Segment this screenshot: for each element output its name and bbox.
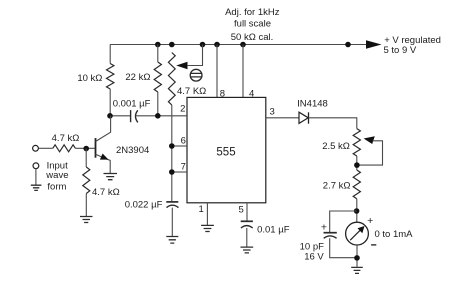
svg-text:4.7 kΩ: 4.7 kΩ: [52, 133, 80, 144]
diode D1 IN4148: [299, 112, 308, 123]
capacitor 0.01 uF: [241, 220, 253, 222]
capacitor 10 pF electrolytic: [324, 232, 337, 234]
wire base to 4.7k pulldown: [85, 149, 87, 168]
wire pin 5 drop: [246, 203, 248, 221]
wire cap bottom to meter bottom: [330, 238, 357, 257]
svg-text:5 to 9 V: 5 to 9 V: [384, 45, 417, 56]
wire pin 3 output: [266, 117, 299, 119]
wire pin 2 line: [110, 115, 187, 117]
wire diode to 2.5k: [309, 118, 357, 129]
2.5k wiper arrow: [364, 136, 375, 144]
wire 2.5k bottom to node: [356, 156, 358, 170]
node pin 6: [169, 143, 175, 149]
svg-text:3: 3: [270, 107, 275, 118]
wire 4.7k to base: [75, 147, 94, 149]
svg-text:0.01 µF: 0.01 µF: [257, 224, 290, 235]
resistor R 4.7 kOhm pulldown: [83, 167, 90, 194]
ground pin 1: [201, 225, 214, 231]
wire pin 1 to ground: [206, 203, 208, 225]
potentiometer 2.5 kOhm: [353, 129, 360, 156]
wire 10k branch top: [109, 45, 111, 64]
svg-text:form: form: [47, 181, 66, 192]
wire 0.01 to ground: [246, 228, 248, 247]
transistor emitter arrow: [100, 154, 109, 160]
wire pins 2-6-7 vertical tie: [171, 116, 173, 202]
svg-text:full scale: full scale: [234, 19, 271, 30]
svg-text:2.5 kΩ: 2.5 kΩ: [322, 141, 350, 152]
ground meter: [351, 267, 363, 273]
ground source: [31, 185, 42, 190]
+V supply arrow: [366, 40, 382, 49]
ground under 0.01: [241, 247, 254, 253]
svg-text:10 kΩ: 10 kΩ: [77, 73, 102, 84]
ground pulldown: [80, 217, 93, 223]
input waveform source circle: [33, 163, 39, 169]
wire meter bottom stub: [356, 245, 358, 267]
node 2.5k/2.7k: [354, 162, 360, 168]
svg-text:16 V: 16 V: [304, 252, 324, 263]
wire pin 4 drop: [242, 45, 244, 98]
wire node to cap branch: [330, 211, 357, 232]
wire pot wiper to rail: [187, 45, 203, 66]
wire 2.7k to meter node: [356, 199, 358, 222]
wire 4.7k pulldown to ground: [85, 194, 87, 217]
wire pin 7 stub: [172, 171, 187, 173]
svg-text:2N3904: 2N3904: [116, 145, 149, 156]
wire 22k branch top: [157, 45, 159, 63]
ground under 0.022: [166, 237, 178, 244]
node pot wiper tie: [200, 42, 206, 48]
node +V tap: [345, 42, 351, 48]
svg-text:1: 1: [199, 204, 204, 215]
svg-text:0.022 µF: 0.022 µF: [125, 199, 163, 210]
node collector / pin2 left: [107, 113, 113, 119]
node 22k bottom: [155, 113, 161, 119]
node base: [83, 146, 89, 152]
svg-text:wave: wave: [45, 170, 68, 181]
transistor emitter lead: [96, 154, 111, 173]
svg-text:Adj. for 1kHz: Adj. for 1kHz: [225, 7, 280, 18]
screwdriver adjust symbol: [190, 69, 202, 81]
svg-text:0 to 1mA: 0 to 1mA: [375, 229, 414, 240]
node 22k top: [155, 42, 161, 48]
wire 10k bottom: [109, 89, 111, 116]
wire source to ground: [35, 169, 37, 185]
resistor R 2.7 kOhm: [353, 170, 360, 199]
svg-text:6: 6: [181, 135, 186, 146]
svg-text:50 kΩ cal.: 50 kΩ cal.: [231, 32, 273, 43]
wire pin 6 stub: [172, 145, 187, 147]
ground emitter: [104, 174, 118, 180]
wire 22k bottom: [157, 92, 159, 116]
node meter bottom: [354, 255, 360, 261]
svg-text:5: 5: [239, 205, 244, 216]
node pot R2 top: [169, 42, 175, 48]
svg-text:22 kΩ: 22 kΩ: [125, 72, 150, 83]
svg-text:7: 7: [181, 162, 186, 173]
transistor collector lead: [96, 116, 111, 142]
wire 2.5k wiper loop: [357, 141, 383, 165]
transistor Q1 2N3904 base bar: [95, 138, 97, 158]
svg-text:2: 2: [180, 103, 185, 114]
meter needle: [350, 229, 361, 240]
capacitor 0.001 uF: [130, 110, 132, 122]
svg-text:+: +: [321, 222, 327, 234]
wire pot bottom: [171, 105, 173, 116]
meter M1 0 to 1mA circle: [346, 222, 369, 245]
svg-text:4.7 KΩ: 4.7 KΩ: [177, 86, 206, 97]
svg-text:2.7 kΩ: 2.7 kΩ: [323, 181, 351, 192]
wire top supply rail: [110, 44, 367, 46]
svg-text:555: 555: [216, 147, 235, 159]
pot wiper arrow: [176, 62, 187, 70]
node pin8 supply: [214, 42, 220, 48]
node pin 7: [169, 169, 175, 175]
node meter top: [354, 208, 360, 214]
svg-text:0.001 µF: 0.001 µF: [113, 98, 151, 109]
svg-text:IN4148: IN4148: [297, 98, 328, 109]
capacitor 0.022 uF: [166, 201, 178, 203]
svg-text:+: +: [367, 215, 373, 227]
wire pin 8 drop: [216, 45, 218, 98]
resistor R 10 kOhm: [107, 64, 114, 90]
resistor R 22 kOhm: [154, 62, 161, 92]
svg-text:4.7 kΩ: 4.7 kΩ: [92, 187, 120, 198]
resistor R 4.7 kOhm series: [53, 145, 76, 152]
potentiometer 4.7 KOhm body: [168, 53, 175, 106]
wire input to 4.7k: [39, 147, 53, 149]
wire 0.022 to ground: [171, 208, 173, 237]
input terminal circle: [33, 145, 39, 151]
IC U1 555 timer box: [187, 97, 266, 202]
node pin4 supply: [240, 42, 246, 48]
